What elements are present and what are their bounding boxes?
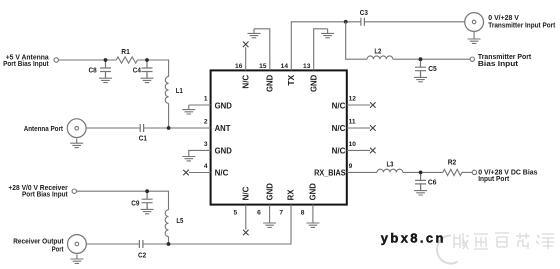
svg-text:C6: C6 [428, 177, 437, 186]
wire TX junction down to L2 [346, 22, 367, 59]
terminal DC bias input [472, 170, 476, 174]
svg-text:6: 6 [257, 209, 261, 216]
svg-text:R2: R2 [448, 158, 457, 167]
svg-text:N/C: N/C [215, 169, 229, 178]
inductor L5 [165, 210, 168, 237]
svg-text:12: 12 [349, 96, 357, 103]
pin 4 stub with no-connect [189, 172, 211, 174]
svg-text:GND: GND [309, 183, 318, 200]
pin 8 ground [312, 205, 314, 219]
wire receiver port to C2 [86, 243, 139, 245]
receiver output port connector [68, 235, 87, 254]
ground of transmitter port [473, 31, 475, 34]
svg-text:Input Port: Input Port [478, 174, 509, 183]
svg-text:N/C: N/C [241, 74, 250, 88]
svg-text:9: 9 [349, 163, 353, 170]
junction dot G [145, 189, 149, 193]
inductor L1 [165, 77, 168, 104]
svg-text:15: 15 [259, 63, 267, 70]
svg-text:13: 13 [303, 63, 311, 70]
junction dot D on TX rail [344, 20, 348, 24]
svg-text:C3: C3 [360, 8, 368, 17]
terminal transmitter bias [470, 57, 474, 61]
svg-text:RX: RX [287, 189, 296, 201]
wire receiver bias rail to L5 [77, 191, 169, 210]
svg-text:C2: C2 [138, 250, 146, 259]
capacitor C8 with ground [100, 60, 111, 78]
svg-text:C8: C8 [89, 66, 97, 75]
junction dot C on ANT rail [167, 126, 171, 130]
pin 5 stub with no-connect [245, 205, 247, 230]
svg-text:C9: C9 [131, 199, 139, 208]
pin 6 ground [269, 205, 271, 219]
pin 13 ground [314, 29, 328, 71]
svg-text:7: 7 [279, 209, 283, 216]
terminal +5V bias input [54, 58, 58, 62]
junction dot H [167, 242, 171, 246]
svg-text:RX_BIAS: RX_BIAS [314, 168, 346, 177]
capacitor C2 series [139, 240, 143, 248]
svg-text:C5: C5 [428, 64, 437, 73]
wire L2 to bias terminal [393, 58, 470, 60]
transmitter input port connector [465, 13, 484, 32]
svg-text:Port: Port [52, 245, 64, 254]
pin 11 stub with no-connect [347, 127, 370, 129]
svg-text:Port Bias Input: Port Bias Input [22, 190, 68, 199]
wire +5V rail from terminal to R1 [58, 59, 116, 61]
pin 12 stub with no-connect [347, 104, 370, 106]
svg-text:1: 1 [204, 96, 208, 103]
svg-text:GND: GND [266, 75, 275, 92]
svg-text:R1: R1 [121, 47, 130, 56]
ground of antenna port [70, 139, 83, 148]
svg-text:10: 10 [349, 141, 357, 148]
pin 10 stub with no-connect [347, 149, 370, 151]
pin 3 ground [189, 150, 211, 152]
junction dot B [145, 58, 149, 62]
wire L3 to R2 [403, 171, 443, 173]
svg-text:GND: GND [265, 183, 274, 200]
svg-text:L5: L5 [176, 216, 184, 225]
svg-text:Bias Input: Bias Input [478, 59, 519, 68]
svg-text:14: 14 [281, 63, 289, 70]
svg-text:2: 2 [204, 119, 208, 126]
svg-text:GND: GND [309, 75, 318, 92]
wire L1 to ANT rail [168, 103, 170, 128]
svg-text:GND: GND [215, 147, 232, 156]
svg-text:N/C: N/C [332, 124, 346, 133]
svg-text:L1: L1 [176, 86, 184, 95]
ground of receiver port [70, 254, 83, 263]
pin 15 ground [254, 29, 270, 71]
svg-text:TX: TX [287, 74, 296, 86]
capacitor C1 series [140, 124, 143, 132]
wire RX_BIAS pin 9 to L3 [347, 171, 377, 173]
resistor R1 [116, 57, 137, 63]
svg-text:N/C: N/C [242, 186, 251, 200]
junction dot E [419, 57, 423, 61]
wire C2 to RX pin 7 [143, 205, 291, 244]
svg-text:L3: L3 [387, 159, 394, 168]
svg-text:11: 11 [349, 119, 356, 126]
inductor L3 [377, 169, 403, 172]
wire C1 to pin 2 [144, 127, 211, 129]
svg-text:Port Bias Input: Port Bias Input [3, 59, 49, 68]
svg-text:C1: C1 [139, 133, 148, 142]
wire R2 to DC bias terminal [462, 171, 472, 173]
wire TX pin 14 to top rail [291, 22, 361, 71]
svg-text:16: 16 [235, 63, 243, 70]
capacitor C9 with ground [142, 191, 153, 209]
svg-text:GND: GND [215, 101, 232, 110]
svg-text:N/C: N/C [332, 147, 346, 156]
inductor L2 [367, 56, 393, 59]
IC U1 body [211, 70, 347, 204]
wire C3 to transmitter port [364, 21, 464, 23]
capacitor C5 with ground [415, 59, 426, 77]
svg-text:ANT: ANT [215, 124, 231, 133]
junction dot F [419, 171, 423, 175]
resistor R2 [443, 169, 462, 175]
capacitor C6 with ground [415, 172, 426, 190]
junction dot A [104, 58, 108, 62]
pin 1 ground [189, 104, 211, 106]
terminal +28V receiver bias [72, 189, 76, 193]
svg-text:N/C: N/C [332, 101, 346, 110]
capacitor C3 series [361, 18, 365, 26]
svg-text:L2: L2 [374, 47, 381, 56]
svg-text:Antenna Port: Antenna Port [24, 124, 64, 133]
svg-text:3: 3 [204, 141, 208, 148]
pin 16 stub with no-connect [245, 47, 247, 70]
wire L5 to RX rail [168, 237, 170, 244]
capacitor C4 with ground [142, 60, 153, 78]
wire antenna port to C1 [86, 127, 140, 129]
wire R1 to L1 corner [137, 60, 168, 77]
watermark chinese characters [454, 233, 554, 249]
svg-text:4: 4 [204, 163, 208, 170]
svg-text:C4: C4 [133, 66, 142, 75]
watermark swirl logo [437, 235, 457, 263]
svg-text:Transmitter Input Port: Transmitter Input Port [488, 20, 555, 29]
antenna port connector P1 [67, 119, 86, 138]
svg-text:8: 8 [301, 209, 305, 216]
svg-text:5: 5 [234, 209, 238, 216]
